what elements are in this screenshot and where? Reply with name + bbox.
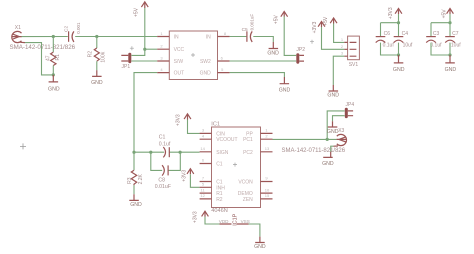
svg-text:VCON: VCON bbox=[238, 180, 253, 186]
wire JP1 pin1 bbox=[132, 49, 145, 55]
wire pin6 to JP2 bbox=[230, 60, 297, 62]
svg-text:SIGN: SIGN bbox=[216, 150, 229, 156]
jumper JP2 bbox=[296, 40, 314, 64]
svg-text:JP2: JP2 bbox=[296, 47, 305, 53]
svg-text:C5: C5 bbox=[242, 27, 248, 33]
svg-text:+3V3: +3V3 bbox=[176, 114, 182, 126]
ground below X3 bbox=[322, 152, 334, 168]
resistor R3 bbox=[127, 170, 144, 185]
svg-text:GND: GND bbox=[91, 80, 103, 86]
svg-text:C1: C1 bbox=[216, 162, 223, 168]
svg-text:4046N: 4046N bbox=[211, 208, 227, 214]
wire C6 C4 bottom net bbox=[381, 43, 399, 55]
wire SIGN net bbox=[134, 151, 200, 153]
svg-text:OUT: OUT bbox=[174, 71, 185, 77]
node top of C7 bbox=[448, 21, 451, 24]
svg-text:0.1uf: 0.1uf bbox=[430, 43, 442, 49]
svg-text:2.2K: 2.2K bbox=[138, 173, 144, 184]
capacitor C5 bbox=[242, 14, 255, 42]
capacitor C3 bbox=[426, 31, 442, 48]
capacitor C2 bbox=[64, 22, 82, 42]
svg-text:IC1: IC1 bbox=[211, 121, 220, 127]
wire JP4 pin2 to gnd bbox=[333, 116, 345, 122]
node bottom junction bbox=[448, 53, 451, 56]
ground below pin5 wire bbox=[279, 77, 291, 93]
power pins IC1P bbox=[219, 213, 250, 225]
svg-text:JP1: JP1 bbox=[122, 64, 131, 70]
connector X3 bbox=[282, 128, 347, 154]
svg-text:VSS: VSS bbox=[241, 219, 250, 224]
svg-text:X1: X1 bbox=[15, 25, 21, 31]
wire C3 C7 bottom net bbox=[431, 43, 450, 55]
svg-text:C7: C7 bbox=[452, 31, 459, 37]
svg-text:R2: R2 bbox=[88, 51, 94, 58]
svg-text:GND: GND bbox=[322, 161, 334, 167]
ground below VSS bbox=[254, 237, 266, 250]
svg-text:IC1P: IC1P bbox=[233, 213, 239, 225]
wire C8 branch bbox=[151, 152, 181, 170]
wire pin8 to C5 bbox=[230, 36, 247, 38]
svg-text:12: 12 bbox=[200, 193, 205, 198]
jumper JP1 bbox=[121, 46, 134, 70]
ground below C3 C7 bbox=[445, 55, 457, 73]
svg-text:13: 13 bbox=[265, 146, 270, 151]
supply +5V arrow above C3 C7 bbox=[441, 9, 453, 19]
svg-text:VCC: VCC bbox=[174, 47, 185, 53]
svg-text:+5V: +5V bbox=[133, 7, 139, 17]
svg-text:X3: X3 bbox=[338, 128, 344, 134]
wire SV1 pin3 to gnd bbox=[333, 56, 344, 85]
svg-text:GND: GND bbox=[200, 71, 212, 77]
wire +3V3 to INH bbox=[190, 174, 199, 187]
wire PC1 to X3 bbox=[273, 138, 337, 140]
node junction R2 top bbox=[95, 35, 98, 38]
svg-text:+5V: +5V bbox=[273, 14, 279, 24]
svg-text:GND: GND bbox=[445, 67, 457, 73]
origin cross mark left bbox=[20, 143, 26, 149]
resistor R1 bbox=[46, 52, 62, 65]
node C8 branch right bbox=[179, 151, 182, 154]
node VCC junction bbox=[143, 48, 146, 51]
wire VCC bbox=[145, 48, 157, 50]
ground below R3 bbox=[129, 194, 142, 208]
svg-text:C2: C2 bbox=[64, 26, 70, 32]
node SIGN junction left bbox=[132, 151, 135, 154]
wire X1 signal to C2 bbox=[22, 36, 68, 38]
IC U2 4046 (IC1) bbox=[200, 121, 273, 214]
ground below C6 C4 bbox=[393, 55, 405, 73]
svg-text:GND: GND bbox=[130, 202, 142, 208]
svg-text:R2: R2 bbox=[216, 197, 223, 203]
svg-text:C8: C8 bbox=[158, 178, 165, 184]
wire C3 C7 top net bbox=[431, 14, 450, 37]
svg-text:0.1uf: 0.1uf bbox=[159, 142, 171, 148]
op-amp U1 (top IC box) bbox=[157, 31, 229, 80]
svg-text:JP4: JP4 bbox=[346, 102, 355, 108]
capacitor C6 bbox=[376, 31, 395, 48]
svg-text:10: 10 bbox=[265, 187, 270, 192]
wire R1 bottom bbox=[52, 66, 54, 75]
connector X1 bbox=[10, 25, 76, 51]
ground below R2 bbox=[91, 70, 103, 86]
svg-text:C6: C6 bbox=[384, 31, 391, 37]
wire to R1 bbox=[52, 37, 54, 53]
wire pin5 to gnd bbox=[230, 73, 285, 77]
svg-text:+5V: +5V bbox=[441, 9, 447, 19]
svg-text:C1: C1 bbox=[159, 135, 166, 141]
wire C5 to gnd bbox=[253, 37, 273, 43]
svg-text:15: 15 bbox=[265, 193, 270, 198]
svg-text:0.1uf: 0.1uf bbox=[383, 43, 395, 49]
supply +3V3 arrow to INH bbox=[182, 169, 194, 182]
wire +5V to SV1 pin1 bbox=[334, 24, 345, 43]
svg-text:47: 47 bbox=[46, 55, 52, 61]
wire +5V down to VCC node bbox=[144, 8, 146, 49]
capacitor C4 bbox=[394, 31, 413, 48]
wire +3V3 to CIN bbox=[188, 120, 200, 134]
svg-text:GND: GND bbox=[48, 86, 60, 92]
supply +3V3 arrow to IC1P VDD bbox=[193, 211, 209, 223]
svg-text:+3V3: +3V3 bbox=[193, 211, 199, 223]
wire X3 shield to gnd bbox=[331, 146, 334, 151]
resistor R2 bbox=[88, 48, 107, 63]
svg-text:+3V3: +3V3 bbox=[182, 170, 188, 182]
node top of C4 bbox=[397, 21, 400, 24]
svg-text:SV1: SV1 bbox=[349, 62, 359, 68]
svg-text:0.01uF: 0.01uF bbox=[155, 184, 171, 190]
wire to R2 bbox=[96, 37, 98, 49]
svg-text:GND: GND bbox=[267, 51, 279, 57]
ground below R1 bbox=[48, 75, 60, 92]
node JP4 junction bbox=[326, 138, 329, 141]
svg-text:SMA-142-0711-821/826: SMA-142-0711-821/826 bbox=[10, 44, 76, 51]
wire OUT down to bottom circuit bbox=[134, 73, 157, 153]
svg-text:10uf: 10uf bbox=[403, 43, 413, 49]
svg-text:100k: 100k bbox=[100, 51, 106, 62]
svg-text:IN: IN bbox=[174, 35, 179, 41]
svg-text:R3: R3 bbox=[127, 177, 133, 184]
wire JP4 pin1 down to X3 net bbox=[327, 111, 345, 139]
svg-text:14: 14 bbox=[200, 146, 205, 151]
svg-text:VDD: VDD bbox=[219, 219, 229, 224]
svg-text:SMA-142-0711-821/826: SMA-142-0711-821/826 bbox=[282, 148, 346, 154]
svg-text:+3V3: +3V3 bbox=[312, 21, 318, 33]
supply +3V3 arrow left of SV1 bbox=[312, 21, 325, 33]
supply +3V3 arrow above C6 C4 bbox=[388, 7, 402, 19]
svg-text:IN: IN bbox=[206, 35, 211, 41]
wire R2 bottom bbox=[96, 61, 98, 70]
wire C2 to IC pin1 bbox=[75, 36, 157, 38]
node C8 branch left bbox=[149, 151, 152, 154]
wire C6 C4 top net bbox=[381, 14, 399, 37]
node bottom junction bbox=[397, 53, 400, 56]
svg-text:S/W: S/W bbox=[174, 59, 184, 65]
supply +3V3 arrow to CIN bbox=[176, 114, 191, 126]
svg-text:GND: GND bbox=[254, 244, 266, 250]
svg-text:+5V: +5V bbox=[323, 16, 329, 26]
capacitor C7 bbox=[445, 31, 461, 48]
svg-text:C4: C4 bbox=[402, 31, 409, 37]
wire JP1 pin2 to S/W bbox=[132, 60, 158, 62]
svg-text:+3V3: +3V3 bbox=[388, 7, 394, 19]
ground below JP4 bbox=[327, 121, 339, 135]
ground below SV1 bbox=[327, 85, 339, 99]
jumper JP4 bbox=[345, 102, 355, 118]
ground right of C5 bbox=[267, 42, 279, 57]
wire to R3 bbox=[133, 152, 135, 170]
capacitor C1 bbox=[159, 135, 171, 158]
capacitor C8 bbox=[155, 165, 171, 190]
supply +5V arrow left of SV1 bbox=[323, 16, 337, 26]
wire X1 shield bbox=[25, 43, 53, 75]
svg-text:GND: GND bbox=[393, 67, 405, 73]
svg-text:SW2: SW2 bbox=[200, 59, 211, 65]
svg-text:VCOOUT: VCOOUT bbox=[216, 137, 237, 143]
wire +3V3 to VDD bbox=[205, 217, 220, 224]
svg-text:C3: C3 bbox=[433, 31, 440, 37]
svg-text:GND: GND bbox=[327, 129, 339, 135]
pin header SV1 bbox=[341, 36, 360, 68]
svg-text:GND: GND bbox=[279, 87, 291, 93]
svg-text:R1: R1 bbox=[55, 54, 61, 61]
supply +5V arrow above JP2 bbox=[273, 12, 287, 25]
node junction R1 bottom bbox=[52, 73, 55, 76]
wire +3V3 to JP2 pin1 bbox=[284, 17, 296, 56]
svg-text:ZEN: ZEN bbox=[243, 197, 253, 203]
svg-text:GND: GND bbox=[327, 93, 339, 99]
svg-text:0.001: 0.001 bbox=[76, 22, 81, 34]
wire +3V3 to SV1 pin2 bbox=[322, 27, 345, 49]
svg-text:PC2: PC2 bbox=[243, 150, 253, 156]
svg-text:PC1: PC1 bbox=[243, 137, 253, 143]
supply +5V arrow top left bbox=[133, 2, 148, 17]
wire R3 bottom bbox=[133, 185, 135, 194]
svg-text:10uf: 10uf bbox=[451, 43, 461, 49]
svg-text:0.001uF: 0.001uF bbox=[250, 14, 255, 31]
wire VSS to gnd bbox=[249, 224, 260, 237]
node junction R1 top bbox=[52, 35, 55, 38]
